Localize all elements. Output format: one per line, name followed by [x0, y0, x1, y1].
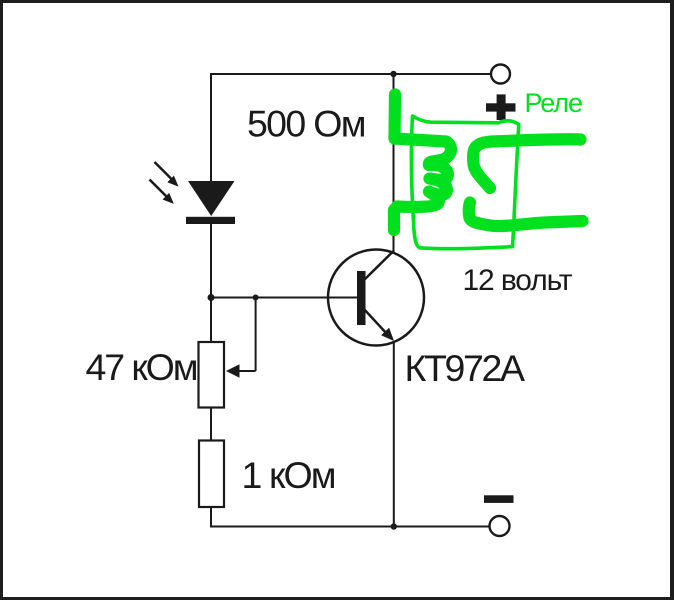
wire left vertical middle (photodiode cathode to potentiometer) [210, 224, 212, 343]
junction dot wiper branch on base wire [253, 295, 259, 301]
relay box outline [411, 116, 518, 249]
relay top contact lead (thick green) [473, 139, 580, 188]
transistor Q1 emitter diagonal [363, 308, 387, 334]
transistor Q1 collector diagonal [362, 251, 394, 283]
border frame top [0, 0, 674, 3]
minus sign label [484, 495, 514, 503]
wire between potentiometer and resistor R2 [210, 408, 212, 442]
wire emitter vertical down to bottom rail [393, 341, 395, 527]
transistor Q1 emitter arrowhead [381, 328, 394, 341]
transistor Q1 base bar [357, 271, 366, 325]
potentiometer wiper arrowhead [226, 364, 240, 377]
border frame right [670, 0, 674, 600]
terminal - circle [490, 516, 510, 536]
wire bottom horizontal rail [210, 526, 489, 528]
light arrow 2 into photodiode [150, 180, 174, 204]
photodiode VD1 triangle [188, 181, 235, 216]
base wire horizontal (left rail to transistor base) [210, 297, 358, 299]
wire top horizontal from node A to + terminal [210, 73, 490, 75]
relay coil stroke (thick green) [394, 95, 451, 231]
border frame bottom [0, 597, 674, 600]
node A junction dot (collector branch on top wire) [390, 71, 396, 77]
svg-text:12 вольт: 12 вольт [463, 264, 573, 297]
svg-text:Реле: Реле [525, 88, 584, 118]
svg-text:КТ972А: КТ972А [405, 347, 526, 389]
plus sign label [486, 94, 516, 120]
relay annotation group (green marker) [394, 88, 583, 249]
junction dot emitter on bottom rail [391, 523, 397, 529]
wire left vertical upper (top wire to photodiode anode) [210, 73, 212, 182]
light arrow 1 into photodiode [155, 162, 179, 187]
wire collector vertical (node A down to transistor) [393, 74, 395, 252]
photodiode VD1 cathode bar [186, 217, 235, 224]
svg-text:500 Ом: 500 Ом [247, 103, 367, 145]
transistor Q1 circle [328, 250, 424, 346]
junction dot left rail / base wire [208, 294, 215, 301]
potentiometer wiper wire vertical [255, 298, 257, 372]
resistor R2 body [199, 441, 224, 508]
svg-text:1 кОм: 1 кОм [242, 454, 337, 496]
potentiometer wiper wire horizontal [238, 370, 256, 372]
potentiometer R1 body [199, 342, 225, 408]
terminal + circle [491, 65, 510, 84]
wire resistor R2 to bottom rail [210, 507, 212, 528]
svg-text:47 кОм: 47 кОм [86, 346, 199, 388]
relay bottom contact lead (thick green) [469, 203, 583, 227]
border frame left [0, 0, 3, 600]
